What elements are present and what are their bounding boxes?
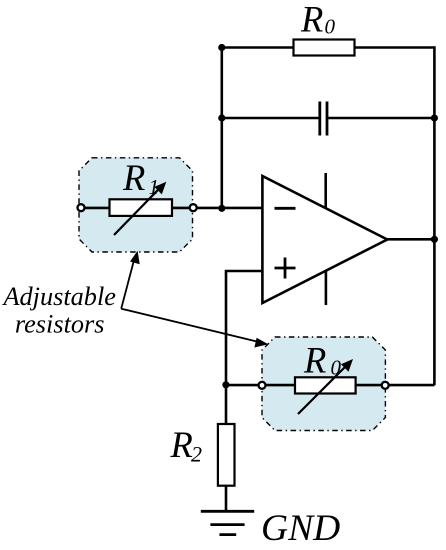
terminal circle (right of bottom R0) [382, 382, 389, 389]
highlight box around bottom R0 (adjustable resistor region) [262, 337, 385, 431]
svg-text:1: 1 [149, 175, 160, 199]
wire: bottom branch through R0 [226, 384, 435, 387]
svg-text:GND: GND [261, 508, 340, 549]
junction node right-cap [431, 114, 438, 121]
wire: top feedback branch [222, 46, 294, 49]
op-amp top supply pin [324, 173, 327, 208]
junction node top-left [218, 44, 225, 51]
junction node left-cap [218, 114, 225, 121]
wire: R2 to ground [225, 486, 228, 512]
annotation arrow to R1 box [121, 258, 135, 309]
wire: right bus [433, 46, 436, 385]
wire: plus input down to bottom node [226, 271, 262, 385]
adjustable arrow through R1 [114, 188, 160, 235]
junction node bottom [222, 381, 229, 388]
terminal circle (left of bottom R0) [259, 382, 266, 389]
svg-text:resistors: resistors [15, 309, 105, 338]
annotation arrow to bottom R0 box [121, 309, 260, 343]
svg-text:2: 2 [191, 442, 202, 467]
junction node output [431, 236, 438, 243]
op-amp plus sign [275, 267, 296, 270]
svg-text:Adjustable: Adjustable [1, 282, 116, 311]
resistor R2 body [218, 424, 235, 486]
wire: R1 input to op-amp minus input [85, 207, 262, 210]
resistor R0 top body [294, 40, 355, 56]
svg-text:R: R [170, 424, 193, 465]
input terminal circle (left of R1) [78, 204, 85, 211]
resistor R0 bottom body [295, 377, 356, 393]
op-amp bottom supply pin [325, 272, 328, 306]
svg-text:0: 0 [325, 15, 336, 39]
resistor R1 body [110, 199, 173, 216]
wire: capacitor branch right [328, 117, 434, 120]
wire [355, 46, 435, 49]
capacitor C1 plate left [318, 102, 321, 136]
adjustable arrow through bottom R0 [298, 366, 347, 415]
terminal circle (right of R1) [190, 204, 197, 211]
op-amp U1 triangle [262, 176, 387, 303]
highlight box around R1 (adjustable resistor region) [79, 158, 193, 252]
wire: node to R2 [225, 385, 228, 425]
capacitor C1 plate right [326, 102, 329, 136]
ground symbol [201, 510, 254, 513]
wire: op-amp output [387, 238, 434, 241]
svg-text:0: 0 [331, 356, 342, 380]
junction node minus input [218, 205, 225, 212]
svg-text:R: R [300, 0, 323, 40]
wire: capacitor branch left [222, 117, 319, 120]
svg-text:R: R [122, 157, 145, 198]
wire: left bus [221, 46, 224, 209]
svg-text:R: R [303, 340, 326, 381]
op-amp minus sign [275, 207, 296, 210]
